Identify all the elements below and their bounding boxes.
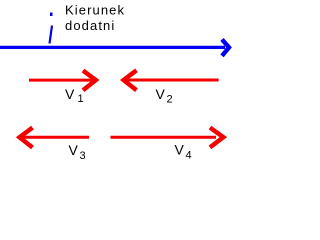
svg-text:V: V — [65, 86, 75, 102]
svg-text:4: 4 — [186, 149, 192, 161]
svg-text:V: V — [69, 142, 79, 158]
svg-text:1: 1 — [78, 93, 84, 105]
svg-text:3: 3 — [80, 150, 86, 162]
svg-text:2: 2 — [167, 93, 173, 105]
svg-text:dodatni: dodatni — [65, 18, 115, 33]
svg-text:V: V — [175, 142, 185, 158]
svg-text:V: V — [156, 86, 166, 102]
svg-text:Kierunek: Kierunek — [65, 3, 125, 18]
